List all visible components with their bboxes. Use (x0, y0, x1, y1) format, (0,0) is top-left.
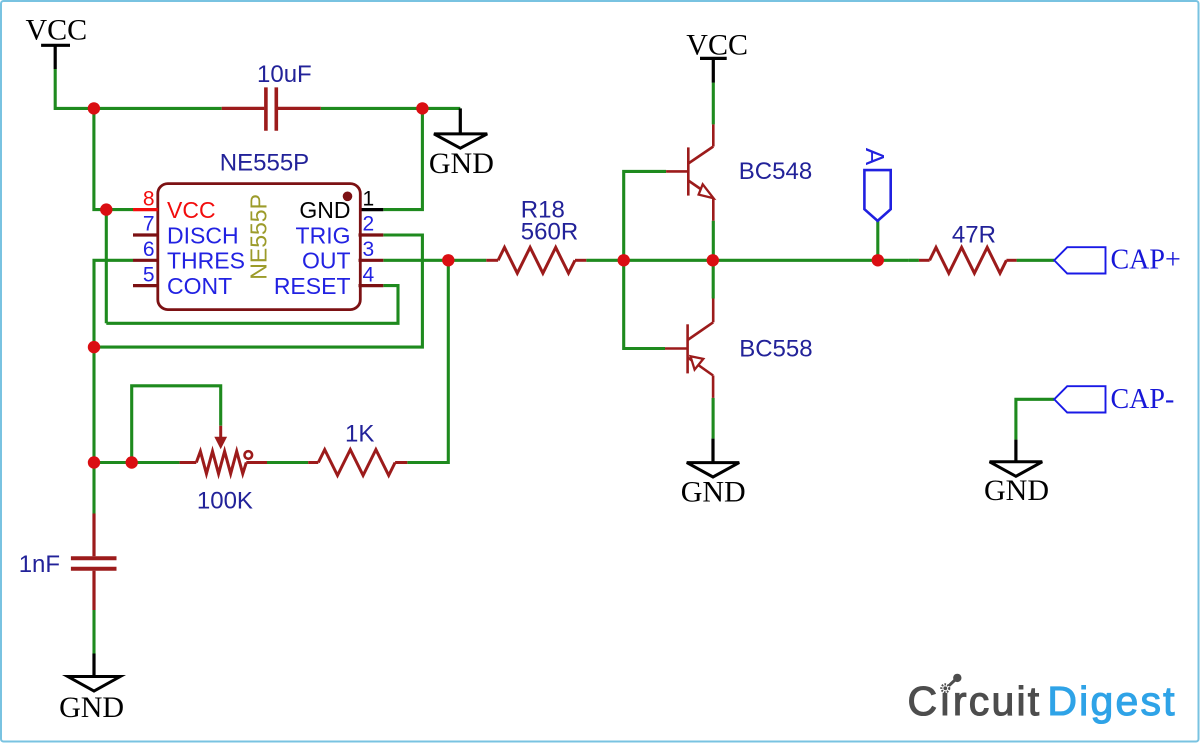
svg-text:2: 2 (363, 213, 375, 236)
ground mid pin (711, 439, 714, 463)
Q2 emitter arrow (open, pointing at bar) (691, 356, 704, 369)
Q1 emitter stub (712, 198, 715, 221)
wire VCC rail down to pin8 node (94, 108, 133, 209)
svg-text:VCC: VCC (167, 197, 216, 223)
Q1 collector diagonal (688, 147, 713, 164)
resistor R18 560R (486, 247, 586, 273)
resistor 1K (308, 450, 407, 476)
node pin8 VCC (100, 203, 112, 215)
svg-text:VCC: VCC (686, 28, 748, 61)
svg-text:CAP+: CAP+ (1111, 245, 1181, 276)
wire base node up to BC548 base (624, 171, 666, 260)
wire THRES to left rail (94, 260, 133, 513)
wire pot right to 1K left (267, 461, 308, 464)
op-amp/IC U1 box (158, 184, 360, 310)
svg-text:GND: GND (681, 476, 746, 509)
wire bus to 47R (909, 259, 919, 262)
Q2 collector diagonal (688, 358, 714, 376)
svg-text:TRIG: TRIG (296, 222, 351, 248)
svg-text:10uF: 10uF (257, 61, 312, 88)
svg-text:1nF: 1nF (19, 551, 60, 578)
wire OUT to R18 (383, 259, 486, 262)
svg-text:560R: 560R (521, 219, 578, 246)
Q1 base stub (666, 170, 688, 173)
svg-text:47R: 47R (952, 222, 996, 249)
wire top rail right of 10uF to GND corner (321, 107, 461, 110)
ground right triangle (990, 462, 1043, 477)
IC pin-1 marker dot (343, 192, 353, 202)
wire 47R to CAP+ (1017, 259, 1055, 262)
potentiometer wiper terminal circle (245, 451, 253, 459)
node pot left (126, 456, 138, 468)
Q1 collector stub (712, 124, 715, 146)
svg-text:BC548: BC548 (739, 158, 812, 185)
wire BC558 collector to GND (712, 398, 715, 439)
ground right pin (1014, 440, 1017, 462)
wire BC558 emitter to bus (712, 260, 715, 298)
svg-text:1K: 1K (345, 421, 374, 448)
svg-text:A: A (860, 148, 890, 166)
wire pin8 node down to RESET loop (105, 210, 108, 324)
wire pot wiper loop (132, 386, 221, 463)
svg-text:RESET: RESET (274, 273, 351, 299)
pin 8 stub (red highlighted) (133, 208, 158, 211)
connector CAP+ (1054, 247, 1105, 273)
connector CAP- (1054, 386, 1105, 412)
wire RESET loop (106, 286, 398, 324)
Q2 emitter stub (712, 299, 715, 323)
svg-text:GND: GND (429, 147, 494, 180)
svg-text:CAP-: CAP- (1111, 384, 1175, 415)
svg-text:8: 8 (143, 187, 155, 210)
node emitters (707, 254, 719, 266)
svg-text:THRES: THRES (167, 248, 245, 274)
Q2 collector stub (712, 376, 715, 398)
wire R18 right to bus (586, 259, 909, 262)
wire OUT node down to 1K (407, 260, 448, 462)
Q2 base bar (686, 324, 689, 373)
ground top right triangle (434, 134, 487, 148)
Q2 emitter diagonal (688, 322, 714, 340)
svg-text:DISCH: DISCH (167, 222, 239, 248)
node TRIG/THRES (88, 341, 100, 353)
ground top right pin (459, 108, 462, 133)
capacitor C 1nF leads (92, 514, 95, 611)
Q2 base stub (665, 347, 688, 350)
wire bottom rail to pot (94, 461, 180, 464)
wire TRIG loop (94, 235, 422, 347)
svg-text:7: 7 (143, 213, 155, 236)
Q1 emitter arrow (open) (699, 184, 714, 198)
svg-text:BC558: BC558 (739, 336, 812, 363)
ground bottom-left triangle (68, 677, 120, 692)
capacitor C 10uF leads (222, 107, 321, 110)
pin 7 stub (133, 233, 158, 236)
potentiometer zigzag (196, 451, 246, 473)
wire pin1 to top GND net (383, 108, 422, 209)
VCC symbol top-left (41, 45, 70, 69)
pin 3 stub (359, 259, 384, 262)
svg-text:OUT: OUT (302, 248, 351, 274)
wire top rail left of 10uF (94, 107, 222, 110)
node VCC rail / cap left (88, 102, 100, 114)
node OUT (442, 254, 454, 266)
svg-text:100K: 100K (197, 488, 253, 515)
svg-text:CONT: CONT (167, 273, 232, 299)
ground bottom-left pin (92, 654, 95, 677)
svg-text:1: 1 (363, 187, 375, 210)
potentiometer wiper arrow head (214, 437, 227, 449)
wire BC548 emitter to bus (712, 221, 715, 261)
svg-text:NE555P: NE555P (245, 194, 271, 280)
svg-text:GND: GND (59, 691, 124, 724)
node transistor bases (618, 254, 630, 266)
pin 2 stub (359, 233, 384, 236)
svg-text:GND: GND (299, 197, 350, 223)
wire A flag stem (876, 221, 879, 260)
pin 1 black stub (359, 208, 384, 211)
svg-text:4: 4 (363, 263, 375, 286)
resistor 47R (919, 247, 1017, 273)
node cap right / GND (416, 102, 428, 114)
Q1 emitter diagonal (688, 181, 710, 196)
svg-text:5: 5 (143, 263, 155, 286)
pin 6 stub (133, 259, 158, 262)
wire base node down to BC558 base (624, 260, 665, 348)
ground mid triangle (687, 463, 739, 477)
potentiometer wiper arrow stem (219, 426, 222, 439)
pin 5 stub (133, 284, 158, 287)
capacitor C 1nF plates (71, 558, 117, 568)
Q1 base bar (687, 147, 690, 195)
wire VCC1 stem to top rail (55, 69, 94, 108)
potentiometer leads (180, 461, 267, 464)
gear on first i (941, 684, 949, 692)
svg-text:NE555P: NE555P (220, 149, 309, 176)
capacitor C 10uF plates (266, 87, 276, 130)
svg-text:VCC: VCC (26, 14, 88, 47)
svg-text:6: 6 (143, 238, 155, 261)
svg-text:3: 3 (363, 238, 375, 261)
wire 1nF bottom lead to GND (92, 610, 95, 654)
wire BC548 collector to VCC2 (712, 83, 715, 125)
pin 4 stub (359, 284, 384, 287)
svg-text:GND: GND (984, 474, 1049, 507)
node A flag (872, 254, 884, 266)
node bottom rail left (88, 456, 100, 468)
wire CAP- to GND (1016, 399, 1054, 439)
VCC symbol above BC548 (700, 58, 727, 82)
